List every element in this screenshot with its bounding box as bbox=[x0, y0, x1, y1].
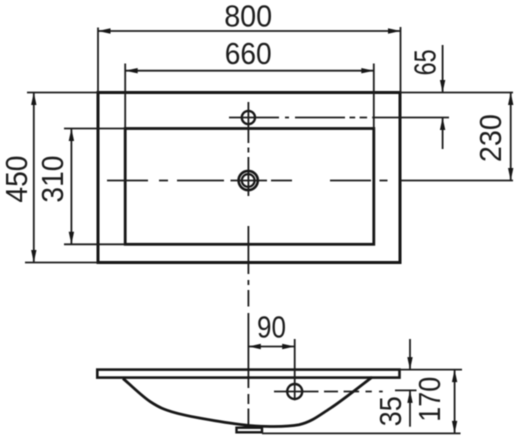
extension line drain level to 230 dim bbox=[401, 180, 514, 182]
dim 35 upper line bbox=[409, 339, 411, 370]
basin inner bowl (top view rectangle 660x310) bbox=[125, 129, 374, 245]
svg-text:310: 310 bbox=[36, 156, 70, 203]
svg-text:170: 170 bbox=[413, 377, 447, 422]
dim 230 line bbox=[510, 93, 512, 181]
dim 65 arrow upper (points down) bbox=[440, 80, 445, 93]
dim 310 extension line top bbox=[64, 128, 125, 130]
dim 660 arrow right bbox=[361, 68, 374, 73]
overflow hole (front view) bbox=[287, 384, 302, 399]
dim 660 extension line left bbox=[124, 64, 126, 129]
dim 800 extension line left bbox=[97, 28, 99, 93]
dim 170 arrow top bbox=[452, 370, 457, 383]
svg-text:450: 450 bbox=[0, 156, 34, 203]
faucet hole bbox=[242, 111, 255, 124]
vertical centerline (dash-dot segments) from faucet to front view drain bbox=[247, 102, 249, 425]
dim 35 lower line bbox=[409, 390, 411, 426]
dim 450 arrow bottom bbox=[31, 250, 36, 263]
svg-text:800: 800 bbox=[224, 0, 272, 34]
drain trap tab under bowl bbox=[237, 428, 263, 433]
dim 170 line bbox=[454, 370, 456, 434]
dim 230 arrow bottom bbox=[508, 168, 513, 181]
dim 170 extension line bottom bbox=[262, 432, 461, 434]
horizontal centerline through drain (dash-dot segments) bbox=[107, 180, 388, 182]
basin bowl curve (front section) bbox=[123, 377, 372, 426]
dim 310 line bbox=[70, 129, 72, 245]
svg-text:65: 65 bbox=[409, 49, 443, 75]
dim 800 arrow right bbox=[388, 28, 401, 33]
dim 90 arrow right bbox=[282, 344, 295, 349]
dim 230 arrow top bbox=[508, 93, 513, 106]
dim 800 line bbox=[98, 30, 401, 32]
dim 660 line bbox=[125, 70, 374, 72]
dim 35 arrow lower (points up) bbox=[407, 390, 412, 403]
drain hole outer bbox=[239, 171, 258, 190]
basin outer rim (top view rectangle 800x450) bbox=[98, 93, 400, 263]
dim 800 arrow left bbox=[98, 28, 111, 33]
dim 450 line bbox=[33, 93, 35, 263]
svg-text:35: 35 bbox=[374, 396, 408, 426]
dim 65 extension line top (rim top edge extended right) bbox=[401, 92, 514, 94]
dim 450 extension line bottom bbox=[25, 262, 98, 264]
dim 65 line lower part bbox=[442, 118, 444, 150]
svg-text:90: 90 bbox=[257, 311, 286, 345]
svg-text:660: 660 bbox=[225, 37, 272, 71]
front view countertop slab bbox=[97, 370, 399, 378]
dim 310 arrow bottom bbox=[69, 232, 74, 245]
dim 450 extension line top bbox=[27, 92, 98, 94]
svg-text:230: 230 bbox=[474, 114, 508, 162]
dim 90 arrow left bbox=[248, 344, 260, 349]
dim 310 extension line bottom bbox=[64, 243, 125, 245]
dim 660 extension line right bbox=[373, 64, 375, 129]
dim 170 arrow bottom bbox=[452, 421, 457, 434]
faucet centerline dash-dot to right edge bbox=[285, 117, 401, 119]
dim 35 extension tick (overflow level) bbox=[395, 389, 417, 391]
dim 450 arrow top bbox=[31, 93, 36, 106]
dim 310 arrow top bbox=[69, 129, 74, 142]
dim 660 arrow left bbox=[125, 68, 138, 73]
dim 90 line bbox=[248, 346, 294, 348]
dim 170 extension line top (slab top extended right) bbox=[400, 369, 463, 371]
dim 800 extension line right bbox=[400, 27, 402, 93]
faucet hole crosshair horizontal bbox=[229, 117, 279, 119]
dim 65 arrow lower (points up) bbox=[440, 118, 445, 131]
dim 35 arrow upper (points down) bbox=[407, 357, 412, 370]
overflow centerline horizontal dash-dot bbox=[274, 391, 383, 393]
drain hole inner bbox=[242, 174, 255, 187]
dim 65 line upper part bbox=[442, 45, 444, 93]
dim 65 extension line bottom (faucet level) bbox=[401, 117, 450, 119]
dim 90 extension line right (through overflow hole) bbox=[294, 339, 296, 400]
